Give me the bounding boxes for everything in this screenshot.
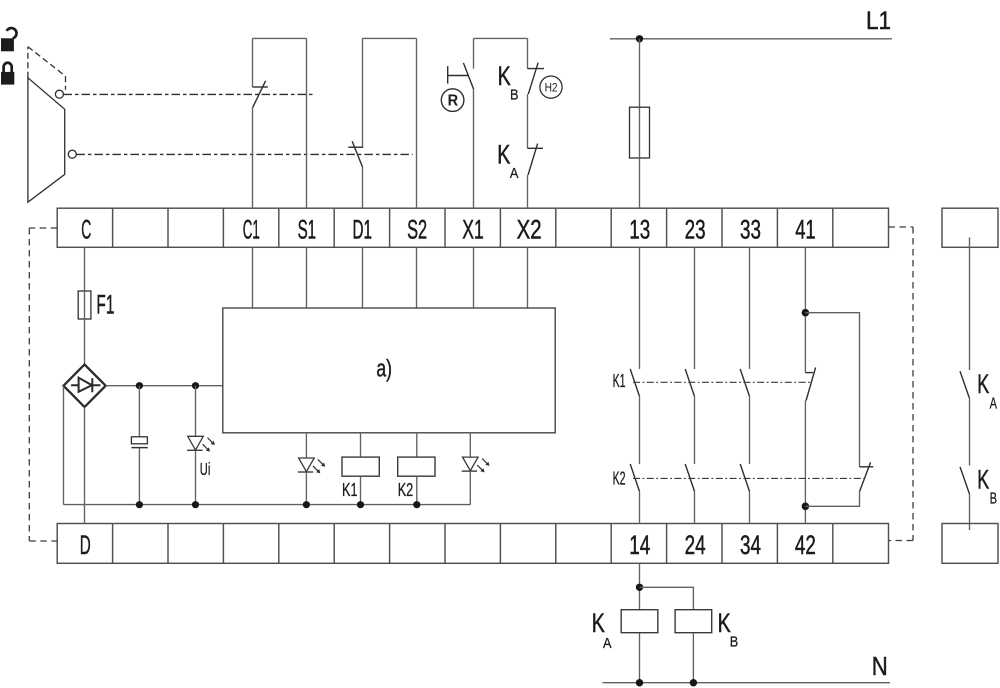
- svg-text:a): a): [376, 356, 392, 383]
- terminal 14: [629, 530, 650, 560]
- svg-text:K1: K1: [342, 480, 358, 500]
- label KA external: [977, 369, 997, 413]
- contact K2-33/34 (NO): [740, 464, 749, 524]
- terminal 23: [685, 214, 706, 244]
- label Ui: [200, 459, 211, 479]
- dashed module frame right: [889, 227, 914, 541]
- svg-text:K2: K2: [613, 469, 626, 489]
- svg-text:23: 23: [685, 214, 706, 244]
- contact KA external (NO): [960, 371, 970, 465]
- svg-text:C: C: [81, 214, 91, 244]
- svg-text:S1: S1: [298, 214, 317, 244]
- label KB coil: [718, 608, 739, 650]
- wire 23 to K1 contact: [694, 247, 696, 369]
- bypass wire 41 branch: [805, 313, 859, 467]
- guard door closed position (solid): [28, 78, 65, 202]
- signal lamp circle H2: [540, 76, 562, 98]
- reset actuator circle R: [441, 89, 464, 112]
- wire cap branch: [138, 386, 140, 437]
- svg-text:B: B: [510, 86, 519, 103]
- wire terminal C to F1: [84, 247, 86, 291]
- svg-text:A: A: [510, 165, 519, 182]
- label KB upper: [498, 61, 519, 103]
- neutral line N: [602, 682, 890, 684]
- svg-text:33: 33: [740, 214, 761, 244]
- terminal D1: [353, 214, 373, 244]
- label K1 row: [613, 371, 626, 391]
- svg-text:K2: K2: [398, 480, 414, 500]
- dc minus bus: [64, 504, 471, 506]
- contact K2-23/24 (NO): [685, 464, 694, 524]
- svg-text:K1: K1: [613, 371, 626, 391]
- label KB external: [977, 464, 997, 507]
- wire 41 down: [804, 247, 806, 372]
- wire X1 upper: [473, 89, 475, 208]
- wire Ui LED branch: [195, 386, 197, 437]
- wire loop X1-X2 top: [474, 37, 528, 39]
- terminal S1: [298, 214, 317, 244]
- svg-text:K: K: [977, 464, 989, 494]
- label N: [872, 651, 888, 681]
- contact KA (NC) in X2 branch: [528, 144, 544, 208]
- unlocked padlock icon: [1, 28, 17, 51]
- terminal 13: [629, 214, 650, 244]
- LED channel 1: [298, 458, 325, 505]
- node bus Ui: [192, 501, 199, 508]
- svg-text:Ui: Ui: [200, 459, 211, 479]
- svg-text:13: 13: [629, 214, 650, 244]
- relay coil K2: [398, 457, 435, 505]
- svg-text:X2: X2: [517, 214, 542, 244]
- svg-text:F1: F1: [96, 289, 114, 319]
- relay coil K1: [342, 457, 379, 505]
- door switch roller A: [55, 90, 63, 98]
- mechanical link K1 row (dash-dot): [633, 381, 812, 383]
- svg-text:A: A: [603, 635, 612, 652]
- door contact 2 (NC) D1-S2: [348, 38, 363, 167]
- bridge rectifier: [64, 365, 106, 408]
- node Ui branch top: [192, 382, 199, 389]
- contact K1-23/24 (NO): [685, 369, 694, 464]
- terminal strip lower row: [57, 524, 888, 564]
- label KA coil: [592, 608, 612, 652]
- node bus K1: [357, 501, 364, 508]
- wire logic to relay coil K1: [360, 433, 362, 457]
- external circuit upper box: [942, 208, 998, 370]
- svg-text:41: 41: [795, 214, 816, 244]
- wire D1 upper: [362, 167, 364, 208]
- node N KA: [636, 679, 643, 686]
- svg-text:X1: X1: [462, 214, 484, 244]
- wire logic to LED1: [305, 433, 307, 458]
- svg-text:S2: S2: [407, 214, 427, 244]
- mechanical link door to contact 1 (dash-dot): [64, 93, 316, 95]
- LED channel 2: [462, 457, 490, 505]
- node 41 branch: [802, 309, 810, 317]
- node on L1: [636, 35, 643, 42]
- terminal 41: [795, 214, 816, 244]
- LED Ui: [187, 436, 215, 504]
- wire loop C1-S1 top: [253, 38, 307, 208]
- svg-text:24: 24: [685, 530, 706, 560]
- logic block a): [223, 308, 555, 433]
- node 42 join: [802, 503, 810, 511]
- terminal X2: [517, 214, 542, 244]
- svg-text:A: A: [990, 395, 998, 412]
- wire C1 upper: [252, 107, 254, 208]
- terminal X1: [462, 214, 484, 244]
- svg-text:N: N: [872, 651, 888, 681]
- contact K1-33/34 (NO): [740, 369, 749, 464]
- locked padlock icon: [1, 63, 14, 85]
- terminal 42: [795, 530, 816, 560]
- label K2 row: [613, 469, 626, 489]
- svg-text:42: 42: [795, 530, 816, 560]
- node N KB: [690, 679, 697, 686]
- terminal 34: [740, 530, 761, 560]
- wire D terminal to rectifier bottom: [84, 407, 86, 524]
- svg-text:B: B: [990, 491, 997, 508]
- reset button contact (NO): [448, 38, 474, 89]
- svg-text:K: K: [498, 61, 511, 91]
- svg-text:D1: D1: [353, 214, 373, 244]
- wire F1 to rectifier: [84, 319, 86, 365]
- terminal strip upper row: [57, 208, 888, 247]
- label F1: [96, 289, 114, 319]
- contact K2 bypass (NC): [805, 462, 873, 506]
- mechanical link door to contact 2 (dash-dot): [76, 153, 412, 155]
- wire logic to relay coil K2: [416, 433, 418, 457]
- contact K1-13/14 (NO): [630, 369, 639, 464]
- svg-text:34: 34: [740, 530, 761, 560]
- wire branch to KB coil: [640, 587, 694, 609]
- contact K2-13/14 (NO): [630, 464, 639, 524]
- wire fuse to terminal 13: [639, 158, 641, 208]
- contact K1-41/42 (NC): [805, 368, 815, 524]
- wire L1 to fuse: [639, 39, 641, 107]
- node bus K2: [413, 501, 420, 508]
- node bus LED1: [303, 501, 310, 508]
- svg-text:14: 14: [629, 530, 650, 560]
- relay coil KA: [621, 610, 658, 633]
- smoothing capacitor: [131, 437, 147, 505]
- svg-text:K: K: [497, 139, 510, 169]
- svg-text:R: R: [448, 93, 459, 110]
- wire 33 to K1 contact: [749, 247, 751, 369]
- terminal C: [81, 214, 91, 244]
- contact KB external (NO): [960, 467, 970, 530]
- terminal 24: [685, 530, 706, 560]
- svg-text:D: D: [80, 530, 91, 560]
- fuse F1: [78, 291, 91, 319]
- label L1: [866, 7, 891, 35]
- wire 13 to K1 contact: [639, 247, 641, 369]
- wire loop D1-S2 top: [363, 38, 417, 208]
- terminal D: [80, 530, 91, 560]
- svg-text:C1: C1: [243, 214, 260, 244]
- contact KB (NC) in X2 branch: [527, 38, 544, 94]
- wires terminals to logic block: [253, 247, 528, 308]
- terminal S2: [407, 214, 427, 244]
- svg-text:L1: L1: [866, 7, 891, 35]
- guard door open position (dashed): [28, 47, 66, 90]
- wire rectifier to module logic: [106, 385, 223, 387]
- door switch roller B: [68, 150, 76, 158]
- door contact 1 (NC) C1-S1: [253, 38, 268, 107]
- wire logic to LED2: [469, 433, 471, 457]
- dashed module frame left: [29, 228, 57, 541]
- wire 14 to N: [639, 563, 641, 683]
- wire rectifier minus rail (left drop): [63, 386, 65, 505]
- line fuse: [630, 107, 650, 158]
- wire between KB and KA contacts: [527, 94, 529, 148]
- node bus cap: [136, 501, 143, 508]
- label K1 coil: [342, 480, 358, 500]
- svg-text:H2: H2: [545, 82, 558, 94]
- mechanical link K2 row (dash-dot): [633, 477, 866, 479]
- svg-text:K: K: [977, 369, 989, 399]
- terminal C1: [243, 214, 260, 244]
- terminal 33: [740, 214, 761, 244]
- node cap branch top: [136, 382, 143, 389]
- svg-text:B: B: [730, 633, 739, 650]
- external circuit lower box: [942, 524, 998, 564]
- svg-text:K: K: [718, 608, 731, 638]
- supply line L1: [610, 38, 892, 40]
- label K2 coil: [398, 480, 414, 500]
- node coil branch: [636, 584, 643, 591]
- relay coil KB: [675, 610, 712, 683]
- label KA upper: [497, 139, 518, 182]
- svg-text:K: K: [592, 608, 605, 638]
